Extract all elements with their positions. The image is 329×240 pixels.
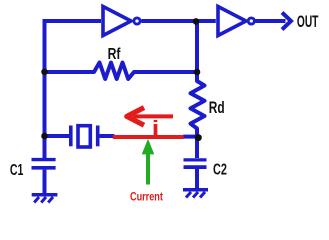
svg-text:i: i — [152, 117, 160, 140]
svg-text:Rd: Rd — [209, 99, 225, 117]
svg-text:C2: C2 — [213, 160, 227, 178]
svg-text:Current: Current — [130, 191, 163, 205]
svg-text:OUT: OUT — [297, 11, 319, 30]
svg-text:C1: C1 — [10, 161, 24, 179]
svg-text:Rf: Rf — [108, 45, 121, 63]
